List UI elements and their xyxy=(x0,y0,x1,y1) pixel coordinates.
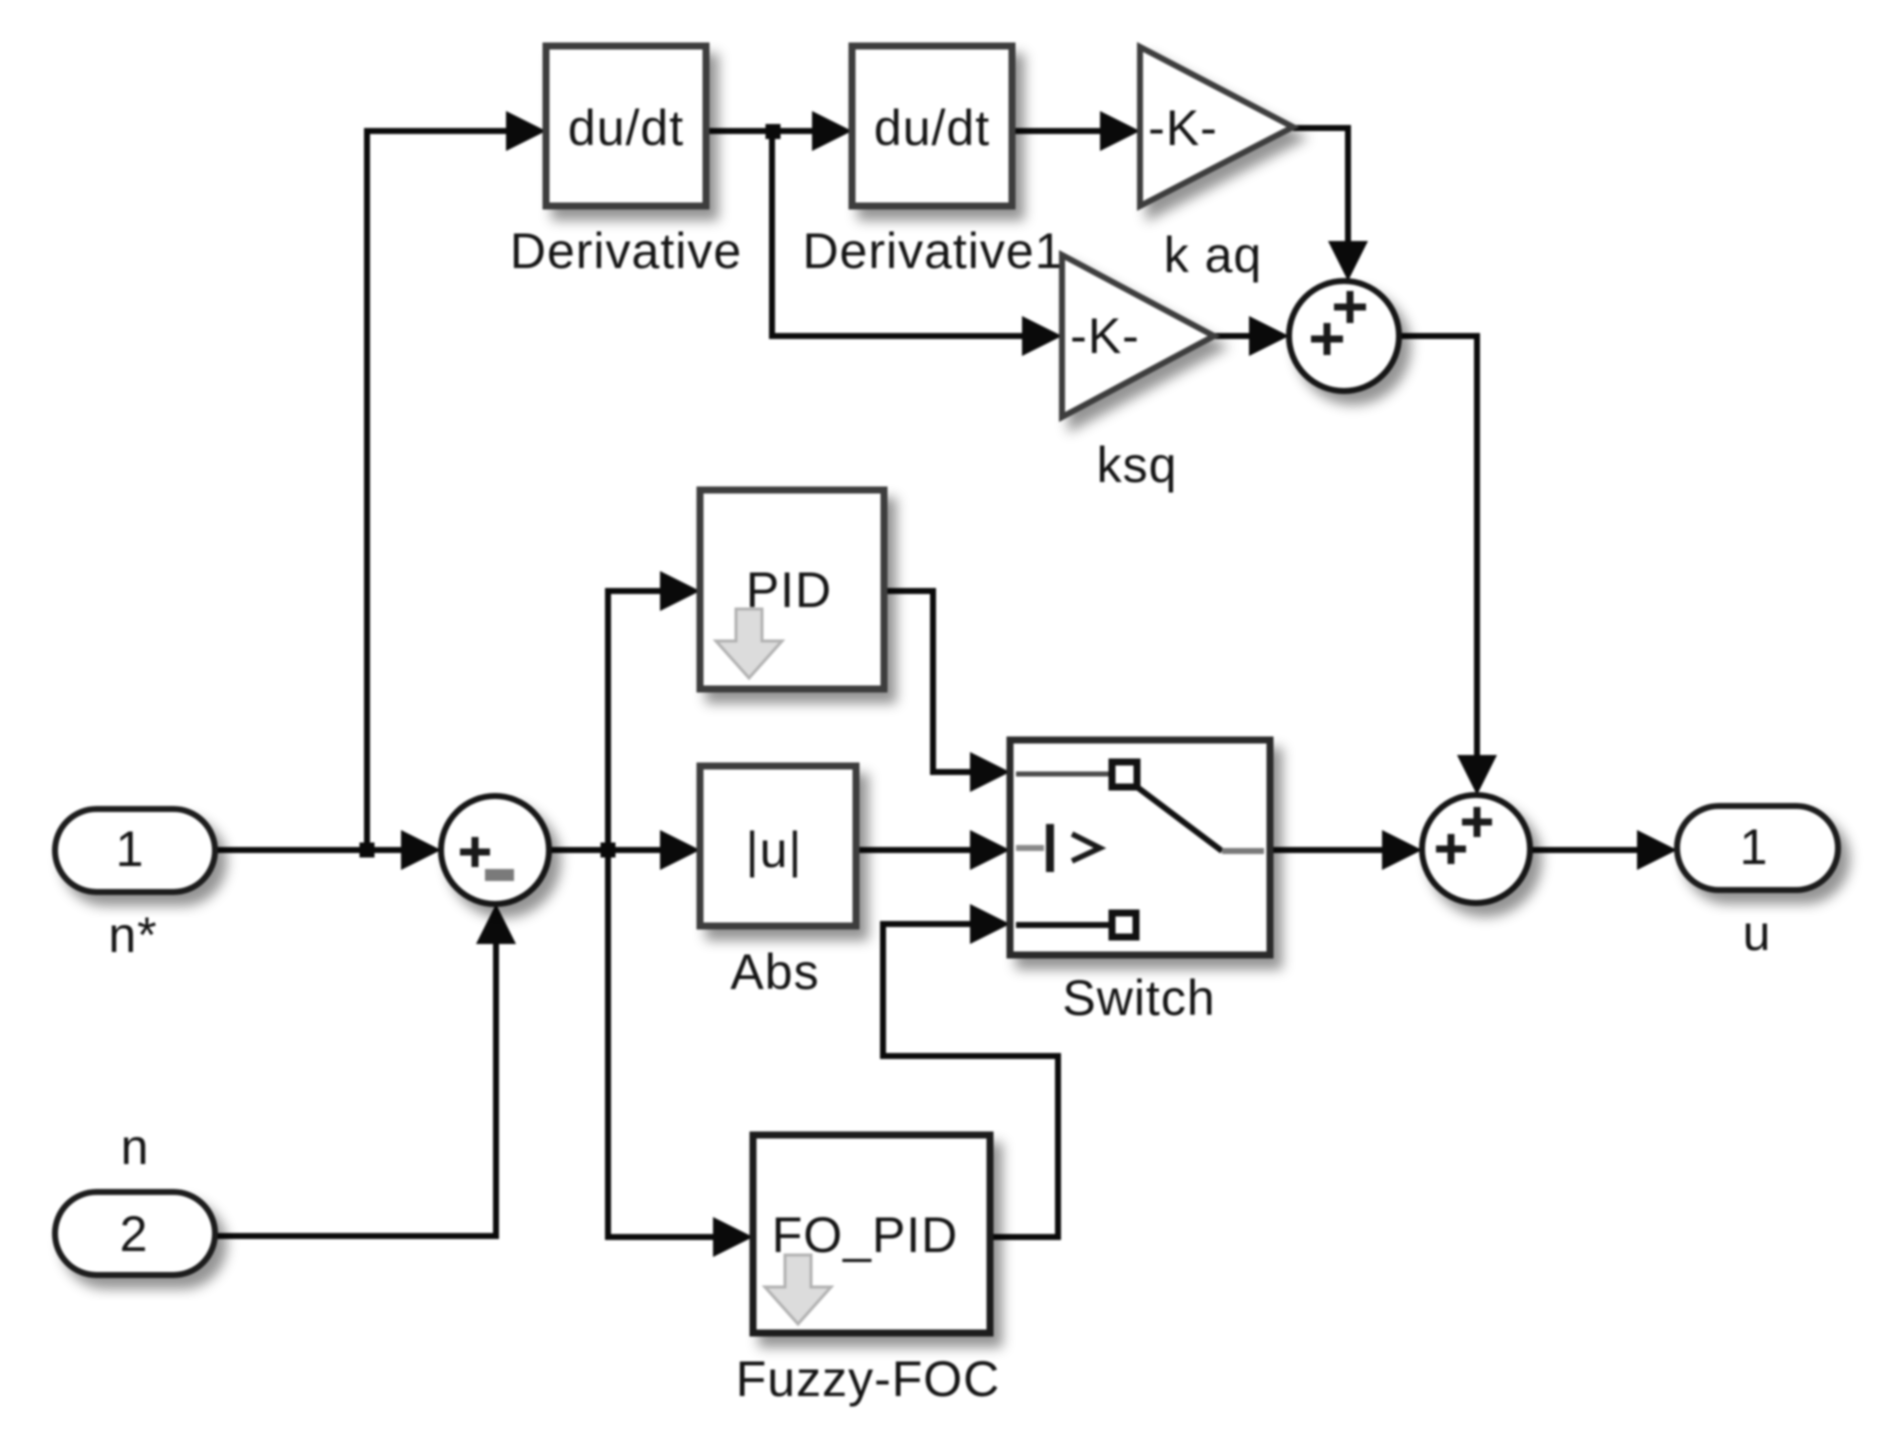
svg-text:-K-: -K- xyxy=(1148,100,1218,156)
FO_PID gray link arrow xyxy=(765,1255,831,1324)
Switch inner port 1 square xyxy=(1112,762,1137,787)
Sum1 block (+ -) xyxy=(441,796,549,904)
svg-text:Abs: Abs xyxy=(730,944,819,1000)
svg-text:-K-: -K- xyxy=(1070,308,1140,364)
svg-text:Switch: Switch xyxy=(1062,970,1215,1026)
Sum2 top plus sign xyxy=(1334,291,1366,323)
Derivative block xyxy=(546,46,706,206)
Switch inner port 3 line xyxy=(1016,922,1112,928)
Sum2 left plus sign xyxy=(1311,323,1343,355)
junction node between Derivative and Derivative1 xyxy=(766,124,781,139)
FO_PID block xyxy=(753,1135,990,1333)
wire Sum3 to Outport 1 xyxy=(1530,830,1677,870)
svg-text:2: 2 xyxy=(120,1206,149,1262)
svg-text:k aq: k aq xyxy=(1164,227,1263,283)
wire Derivative1 to gain kaq xyxy=(1012,111,1140,151)
Switch block xyxy=(1010,740,1270,955)
svg-text:n*: n* xyxy=(108,907,157,963)
svg-text:Fuzzy-FOC: Fuzzy-FOC xyxy=(736,1351,1001,1407)
gain kaq triangle xyxy=(1140,47,1293,206)
wire branch down from node to gain ksq xyxy=(772,131,1062,356)
svg-text:du/dt: du/dt xyxy=(568,100,684,156)
Sum2 block (+ +) xyxy=(1289,281,1399,391)
Switch inner port 1 line xyxy=(1016,772,1112,777)
Inport 1 (n*) xyxy=(55,809,215,892)
Switch greater-than symbol xyxy=(1072,834,1100,861)
wire FO_PID to Switch input 3 xyxy=(883,904,1058,1237)
Sum1 minus sign (gray) xyxy=(485,869,514,881)
Sum1 plus sign xyxy=(460,837,490,867)
svg-text:Derivative1: Derivative1 xyxy=(802,223,1063,279)
svg-text:n: n xyxy=(121,1119,150,1175)
Switch inner port 3 square xyxy=(1112,913,1136,937)
wire Inport 2 to Sum1 bottom xyxy=(214,904,516,1236)
wire PID to Switch input 1 xyxy=(884,591,1010,792)
wire gain ksq to Sum2 left xyxy=(1214,316,1289,356)
wire gain kaq to Sum2 top xyxy=(1293,128,1368,281)
Switch inner output line xyxy=(1222,848,1264,854)
Inport 2 (n) xyxy=(55,1192,215,1275)
Outport 1 (u) xyxy=(1677,806,1838,890)
Sum3 top plus sign xyxy=(1462,807,1492,837)
wire branch up from node to PID xyxy=(608,571,700,850)
wire Sum1 to Abs xyxy=(549,830,700,870)
Abs block xyxy=(700,766,856,926)
Derivative1 block xyxy=(852,46,1012,206)
wire from Inport 1 to Sum1 xyxy=(215,830,441,870)
Switch threshold bar xyxy=(1046,824,1054,872)
svg-text:1: 1 xyxy=(116,821,145,877)
Sum3 block (+ +) xyxy=(1422,795,1530,903)
wire Derivative to Derivative1 xyxy=(706,111,852,151)
wire Sum2 to final Sum3 top xyxy=(1399,336,1497,795)
svg-text:1: 1 xyxy=(1740,819,1769,875)
svg-text:u: u xyxy=(1743,905,1772,961)
svg-text:ksq: ksq xyxy=(1097,437,1178,493)
wire branch down from node to FO_PID xyxy=(608,850,753,1257)
junction node after Sum1 xyxy=(601,843,616,858)
svg-text:|u|: |u| xyxy=(746,822,803,878)
Sum3 left plus sign xyxy=(1436,834,1466,864)
junction node on n* wire xyxy=(360,843,375,858)
PID gray link arrow xyxy=(716,609,782,678)
wire Abs to Switch input 2 xyxy=(856,830,1010,870)
PID block xyxy=(700,490,884,689)
gain ksq triangle xyxy=(1062,255,1214,417)
svg-text:du/dt: du/dt xyxy=(874,100,990,156)
wire branch up from n* to Derivative xyxy=(367,111,546,850)
svg-text:Derivative: Derivative xyxy=(510,223,742,279)
Switch threshold stub line xyxy=(1016,845,1044,851)
wire Switch to final Sum3 xyxy=(1270,830,1422,870)
Switch selector diagonal xyxy=(1137,787,1222,851)
